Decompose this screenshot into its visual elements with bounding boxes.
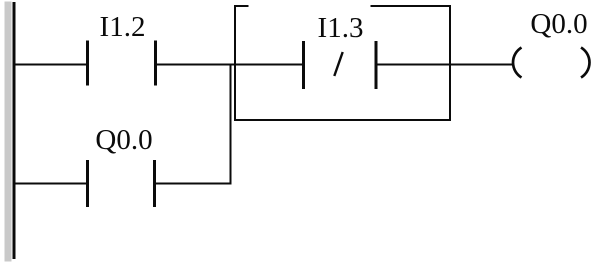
label I1.2 — [100, 11, 146, 43]
svg-text:Q0.0: Q0.0 — [530, 8, 587, 40]
svg-text:Q0.0: Q0.0 — [95, 124, 152, 156]
contact I1.3 normally closed — [302, 41, 378, 89]
node branch junction vertical wire rung1 to rung2 — [230, 64, 232, 185]
wire rung1 contact I1.3 to coil — [378, 64, 515, 66]
box around NC contact I1.3 — [234, 6, 451, 121]
label Q0.0 coil — [530, 8, 587, 40]
contact I1.2 — [86, 41, 157, 86]
label Q0.0 contact — [95, 124, 152, 156]
svg-text:I1.3: I1.3 — [318, 12, 364, 44]
wire rung1 contact I1.2 to contact I1.3 — [157, 64, 302, 66]
coil Q0.0 — [513, 48, 589, 78]
wire rung2 contact Q0.0 to branch junction — [156, 183, 232, 185]
contact Q0.0 latch — [86, 160, 156, 207]
label I1.3 — [318, 12, 364, 44]
left power rail gray bar — [5, 2, 12, 262]
wire rung2 rail to contact Q0.0 — [15, 183, 86, 185]
left power rail black line — [13, 2, 16, 259]
svg-text:I1.2: I1.2 — [100, 11, 146, 43]
wire rung1 rail to contact I1.2 — [15, 64, 86, 66]
